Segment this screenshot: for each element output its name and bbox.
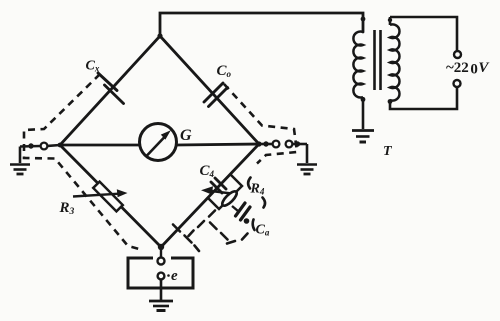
svg-text:e: e <box>171 268 178 284</box>
svg-text:~220V: ~220V <box>446 60 490 78</box>
svg-text:G: G <box>180 127 192 144</box>
svg-text:T: T <box>383 144 393 159</box>
